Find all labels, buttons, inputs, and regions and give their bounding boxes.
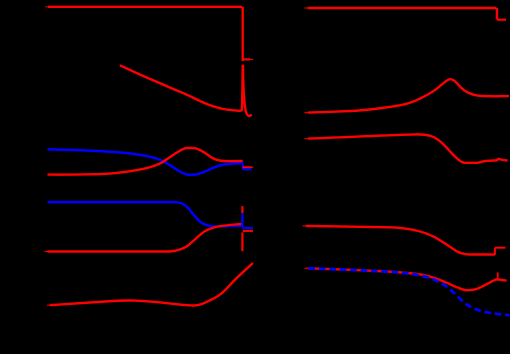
curve: left panel2 red decay with spike [120, 65, 252, 116]
wire: right panel1 lower shelf [497, 19, 506, 21]
wire: right panel4 end upper shelf [495, 247, 506, 249]
wire: left panel4 red post-step segment [243, 230, 253, 232]
curve: left panel3 red dispersion (bump) [48, 148, 243, 175]
wire: left panel1 tick taper tip [250, 58, 254, 60]
wire: left panel4 red vertical above cross [241, 206, 243, 213]
curve: left panel4 red lower level S-up [48, 224, 243, 252]
wire: right panel4 start taper tip [303, 225, 308, 227]
wire: left panel4 red start taper tip [45, 251, 50, 253]
curve: right panel4 red plateau S-down with end step [306, 226, 495, 255]
wire: right panel1 taper start [305, 7, 310, 9]
wire: left panel4 red vertical below cross [241, 232, 243, 251]
wire: right panel3 start taper tip [305, 138, 310, 140]
curve: left panel4 blue upper level S-down [48, 202, 243, 226]
wire: left panel4 blue vertical of cross [241, 213, 243, 227]
wire: right panel5 start taper tip [305, 267, 310, 269]
curve: left panel5 red slow rise then steep climb [50, 263, 253, 306]
wire: right panel5 red spike tick [497, 272, 499, 279]
wire: left panel4 blue post-step segment [242, 227, 253, 229]
curve: left panel3 blue dispersion (dip) [48, 149, 244, 175]
wire: left panel3 blue post-step segment [243, 168, 252, 170]
wire: left panel1 tick arm right [243, 58, 250, 60]
wire: left panel1 vertical drop at x=243 [241, 7, 243, 61]
wire: right panel1 red step trace [308, 7, 496, 9]
curve: right panel3 red plateau with falloff [308, 134, 508, 162]
wire: right panel1 vertical drop [496, 8, 498, 20]
curve: right panel2 red resonance bump [308, 79, 509, 112]
wire: left panel1 start taper tip [46, 6, 51, 8]
wire: left panel3 red post-step taper [252, 166, 254, 168]
wire: left panel3 blue step connector [242, 163, 244, 169]
wire: left panel5 start taper tip [47, 304, 52, 306]
wire: right panel4 end step vertical [494, 248, 496, 255]
curve: right panel5 blue dashed branch [309, 268, 510, 315]
curve: right panel5 red solid branch [309, 268, 507, 290]
wire: left panel1 red step trace (top horizontal) [48, 6, 242, 8]
wire: left panel3 red post-step segment [243, 166, 252, 168]
wire: right panel2 start taper tip [305, 112, 310, 114]
